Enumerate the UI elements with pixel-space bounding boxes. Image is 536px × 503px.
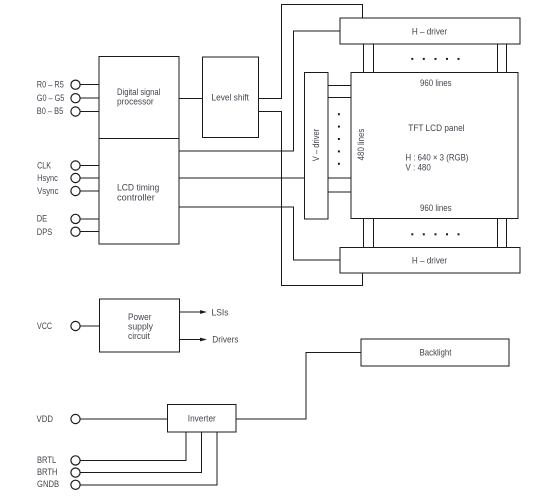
wire BRTL to inverter <box>81 432 187 460</box>
box U3 Level shift <box>203 57 259 138</box>
ellipsis dots top bus <box>411 58 459 60</box>
terminal B0-B5 <box>37 106 80 117</box>
wire DPS to controller <box>81 231 100 233</box>
box U1 Digital signal processor <box>99 57 179 139</box>
wire panel to H-driver bottom line 3 <box>497 219 499 248</box>
wire Level shift to H-driver top (top edge) <box>259 5 363 99</box>
wire power supply to LSIs with arrow <box>180 308 229 319</box>
terminal BRTH <box>37 467 80 478</box>
terminal G0-G5 <box>37 93 80 104</box>
wire panel to H-driver bottom line 2 <box>373 219 375 248</box>
wire DE to controller <box>81 218 100 220</box>
svg-text:DPS: DPS <box>37 227 53 238</box>
svg-text:Inverter: Inverter <box>188 414 216 425</box>
wire H-driver top to panel line 3 <box>497 44 499 73</box>
svg-text:Vsync: Vsync <box>37 186 59 197</box>
terminal GNDB <box>37 479 80 490</box>
wire Level shift to H-driver bottom (bottom edge) <box>259 112 363 286</box>
svg-text:CLK: CLK <box>37 161 51 172</box>
svg-text:Hsync: Hsync <box>37 173 58 184</box>
wire power supply to Drivers with arrow <box>180 335 239 346</box>
terminal DPS <box>37 227 80 238</box>
wire V-driver to panel bus bottom line 1 <box>328 177 351 179</box>
terminal Vsync <box>37 186 80 197</box>
wire inverter to backlight <box>236 353 361 420</box>
wire controller to H-driver bottom (left edge) <box>179 207 340 260</box>
wire GNDB to inverter <box>81 432 218 485</box>
svg-text:960 lines: 960 lines <box>420 203 452 214</box>
svg-text:V – driver: V – driver <box>311 129 322 162</box>
wire panel to H-driver bottom line 1 <box>363 219 365 248</box>
svg-text:LSIs: LSIs <box>212 308 229 319</box>
terminal R0-R5 <box>37 80 80 91</box>
wire H-driver top to panel line 1 <box>363 44 365 73</box>
box U8 Power supply circuit <box>100 299 180 352</box>
svg-text:BRTH: BRTH <box>37 467 58 478</box>
svg-text:controller: controller <box>117 192 155 203</box>
wire G0-G5 to DSP <box>81 97 100 99</box>
svg-text:Backlight: Backlight <box>420 348 452 359</box>
wire Hsync to controller <box>81 177 100 179</box>
svg-text:H – driver: H – driver <box>412 27 447 38</box>
svg-text:480 lines: 480 lines <box>356 128 367 160</box>
svg-text:circuit: circuit <box>128 331 150 342</box>
terminal VCC <box>37 321 80 332</box>
svg-text:Level shift: Level shift <box>211 93 249 104</box>
box U10 Inverter <box>168 405 237 433</box>
terminal DE <box>37 214 80 225</box>
svg-text:G0 – G5: G0 – G5 <box>37 93 65 104</box>
wire DSP to Level shift <box>179 98 203 100</box>
svg-text:Drivers: Drivers <box>212 335 238 346</box>
ellipsis dots bottom bus <box>411 233 459 235</box>
svg-text:V : 480: V : 480 <box>406 163 431 174</box>
terminal CLK <box>37 161 80 172</box>
box U6 H-driver top <box>340 18 520 44</box>
svg-text:B0 – B5: B0 – B5 <box>37 106 63 117</box>
svg-text:BRTL: BRTL <box>37 455 56 466</box>
box U7 H-driver bottom <box>340 248 520 274</box>
wire CLK to controller <box>81 165 100 167</box>
wire VDD to inverter <box>81 418 168 420</box>
terminal Hsync <box>37 173 80 184</box>
wire VCC to power supply <box>81 325 100 327</box>
wire V-driver to panel bus top line 1 <box>328 85 351 87</box>
terminal BRTL <box>37 455 80 466</box>
wire B0-B5 to DSP <box>81 111 100 113</box>
box U5 TFT LCD panel <box>351 73 518 219</box>
box U9 Backlight <box>361 339 509 366</box>
wire R0-R5 to DSP <box>81 84 100 86</box>
wire controller to H-driver top (left edge) <box>179 31 340 151</box>
svg-text:VDD: VDD <box>37 414 54 425</box>
svg-text:DE: DE <box>37 214 47 225</box>
svg-text:VCC: VCC <box>37 321 52 332</box>
wire panel to H-driver bottom line 4 <box>506 219 508 248</box>
terminal VDD <box>37 414 81 425</box>
wire V-driver to panel bus top line 2 <box>328 97 351 99</box>
svg-text:H – driver: H – driver <box>412 256 447 267</box>
box U4 V-driver <box>305 73 329 220</box>
wire H-driver top to panel line 2 <box>373 44 375 73</box>
box U2 LCD timing controller <box>99 139 179 245</box>
wire H-driver top to panel line 4 <box>506 44 508 73</box>
wire BRTH to inverter <box>81 432 202 473</box>
svg-text:R0 – R5: R0 – R5 <box>37 80 64 91</box>
svg-text:processor: processor <box>117 97 154 108</box>
ellipsis dots V-driver bus <box>338 113 340 165</box>
svg-text:960 lines: 960 lines <box>420 78 452 89</box>
wire controller to V-driver <box>179 177 305 179</box>
svg-text:GNDB: GNDB <box>37 479 59 490</box>
wire Vsync to controller <box>81 190 100 192</box>
wire V-driver to panel bus bottom line 2 <box>328 191 351 193</box>
svg-text:TFT LCD panel: TFT LCD panel <box>408 123 464 134</box>
